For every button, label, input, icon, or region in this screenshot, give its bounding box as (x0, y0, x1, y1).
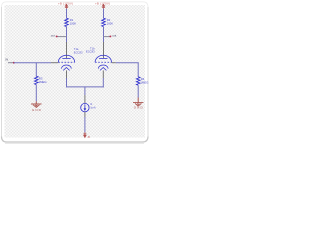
svg-text:GND: GND (134, 105, 144, 109)
card frame edges (2, 2, 149, 144)
svg-text:R2: R2 (107, 18, 111, 22)
svg-text:+B (170V): +B (170V) (95, 2, 110, 6)
grid pin T1a (51, 62, 58, 64)
svg-text:ECC83: ECC83 (74, 50, 83, 54)
svg-text:T1b: T1b (90, 46, 95, 50)
svg-text:ECC83: ECC83 (86, 50, 95, 54)
svg-text:out: out (51, 34, 55, 38)
wire R4 to ground (137, 85, 139, 97)
ground GND1 (31, 104, 41, 107)
wire tail down (84, 87, 86, 95)
svg-text:+B (170V): +B (170V) (58, 2, 73, 6)
svg-text:100K: 100K (70, 22, 76, 26)
wire (66, 27, 68, 42)
wire to negative supply (84, 117, 86, 132)
svg-text:GND: GND (32, 108, 42, 112)
wire input to grid (14, 62, 51, 64)
wire (66, 9, 68, 19)
wire grid T1b to R4 (116, 62, 139, 64)
power V+ symbol (left) (65, 4, 68, 9)
power V+ symbol (right) (102, 4, 105, 9)
cathode bus wires (66, 78, 68, 87)
pin wire to plate (66, 42, 68, 58)
svg-text:R1: R1 (70, 18, 74, 22)
svg-text:100K: 100K (107, 22, 113, 26)
svg-text:T1a: T1a (74, 47, 79, 51)
schematic canvas background (5, 5, 146, 138)
wire (103, 9, 105, 19)
grid pin T1b (112, 62, 116, 64)
svg-text:out: out (112, 34, 116, 38)
triode T1a (58, 55, 74, 70)
svg-text:-B: -B (87, 136, 90, 139)
svg-text:IN: IN (5, 57, 8, 61)
resistor R1 (65, 18, 69, 26)
svg-text:1MEG: 1MEG (141, 80, 149, 84)
svg-text:1MEG: 1MEG (39, 80, 47, 84)
cathode pin T1b (102, 70, 104, 78)
resistor R2 (102, 18, 106, 26)
cathode pin T1a (66, 70, 68, 78)
wire junction down to R3 (35, 63, 37, 77)
pin wire to plate (103, 42, 105, 58)
svg-text:1mA: 1mA (90, 105, 96, 109)
node out (left plate tap) (57, 36, 67, 38)
pin below I1 (84, 112, 86, 117)
resistor R4 (136, 77, 140, 85)
triode T1b (95, 55, 111, 70)
wire (103, 27, 105, 42)
current source I1 (81, 103, 89, 111)
wire R3 to ground (35, 85, 37, 102)
power V- symbol (83, 134, 86, 138)
resistor R3 (35, 76, 39, 84)
ground GND2 (133, 103, 143, 106)
node out (right plate tap) (104, 36, 111, 38)
